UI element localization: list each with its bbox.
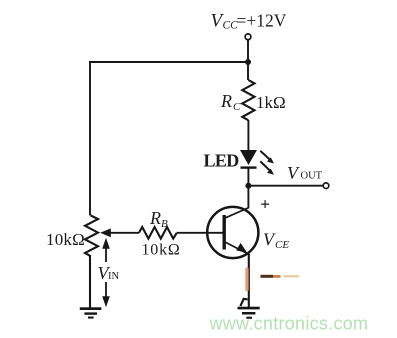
- label RC: [220, 91, 241, 113]
- resistor RC: [242, 80, 254, 120]
- svg-text:V: V: [287, 163, 300, 183]
- svg-text:C: C: [233, 101, 241, 113]
- svg-text:www.cntronics.com: www.cntronics.com: [209, 314, 369, 334]
- label VIN: [98, 263, 120, 283]
- terminal VOUT: [323, 183, 329, 189]
- watermark www.cntronics.com: [209, 314, 369, 334]
- label VOUT: [287, 163, 323, 183]
- label 10kΩ potentiometer: [46, 230, 85, 249]
- svg-text:B: B: [161, 218, 168, 230]
- svg-text:R: R: [220, 91, 232, 111]
- svg-text:=+12V: =+12V: [237, 11, 287, 31]
- wire potentiometer to ground: [89, 256, 91, 308]
- svg-text:LED: LED: [204, 151, 240, 171]
- label +: [260, 194, 270, 213]
- node output junction: [245, 183, 251, 189]
- svg-text:10kΩ: 10kΩ: [142, 242, 181, 259]
- svg-text:1kΩ: 1kΩ: [256, 93, 286, 112]
- ground right: [238, 307, 260, 319]
- svg-text:R: R: [149, 208, 161, 228]
- label 1kΩ: [256, 93, 286, 112]
- LED D1: [240, 150, 257, 168]
- resistor RB: [139, 227, 177, 239]
- label LED: [204, 151, 240, 171]
- node top junction: [245, 59, 251, 65]
- wire left vertical to potentiometer: [89, 61, 91, 216]
- wire junction to RC: [247, 62, 249, 80]
- orange highlighter vertical mark: [245, 269, 248, 290]
- svg-text:CE: CE: [275, 239, 289, 251]
- svg-text:10kΩ: 10kΩ: [46, 230, 85, 249]
- ground right slash artifact: [240, 299, 247, 306]
- potentiometer wiper arrow: [100, 228, 139, 237]
- svg-text:IN: IN: [108, 271, 119, 282]
- ground left: [80, 307, 102, 318]
- potentiometer RP: [85, 216, 98, 257]
- wire emitter to ground: [248, 254, 250, 307]
- transistor Q1: [207, 207, 258, 258]
- arrow VIN double: [102, 238, 110, 307]
- label VCC = +12V: [211, 11, 287, 32]
- wire LED to output node: [247, 167, 249, 186]
- svg-text:+: +: [260, 194, 270, 213]
- wire VCC terminal to top junction: [247, 40, 249, 62]
- label VCE: [263, 230, 289, 252]
- terminal VCC: [245, 34, 251, 40]
- svg-text:OUT: OUT: [301, 171, 323, 182]
- LED light arrows: [260, 151, 274, 175]
- label 10kΩ RB: [142, 242, 181, 259]
- wire output node to collector: [247, 186, 249, 209]
- wire to VOUT terminal: [248, 185, 323, 187]
- wire RC to LED: [247, 120, 249, 151]
- orange highlighter dashes: [261, 275, 300, 278]
- label RB: [149, 208, 168, 230]
- wire RB to base: [177, 232, 223, 234]
- wire top horizontal: [89, 61, 248, 63]
